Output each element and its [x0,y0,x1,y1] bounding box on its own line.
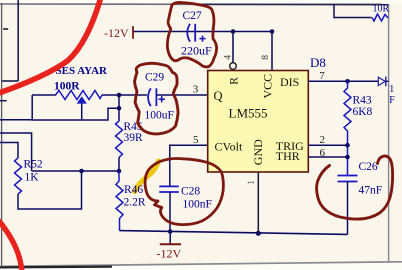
wire: top -12V rail to C27 and pins 4,8 [133,31,271,33]
svg-text:Q: Q [214,89,223,103]
svg-text:8: 8 [261,55,271,60]
junction dot pin4 top [231,29,236,34]
svg-text:DIS: DIS [280,75,299,89]
op-amp timer U? LM555 body [208,71,309,173]
svg-text:D8: D8 [310,55,326,70]
svg-text:3: 3 [193,84,199,96]
svg-text:6: 6 [320,147,326,159]
capacitor C27 straight plate [194,24,196,42]
wire: C28 bottom stub [169,192,171,232]
diode D8 cathode bar [385,77,387,87]
wire: R52 top lead from left edge [0,143,18,159]
svg-text:100uF: 100uF [145,109,174,121]
wire: pin1 GND stub [257,172,259,233]
svg-text:7: 7 [319,70,325,82]
svg-text:-12V: -12V [157,247,182,261]
junction dot bottom pin1 [256,231,261,236]
wire: C26 bottom drop [347,182,349,235]
junction dot R43 top [345,79,350,84]
wire: pot left lead [32,94,56,96]
svg-text:R46: R46 [124,184,143,196]
svg-text:THR: THR [276,149,300,163]
power port bar -12V bottom [160,243,181,245]
wire: TRIG pin2 [308,144,347,146]
svg-text:5: 5 [193,134,199,146]
svg-text:VCC: VCC [261,74,275,99]
C27 plus sign [199,36,205,42]
wire: pot left lead drop [31,95,33,120]
C29 plus sign [159,96,165,102]
potentiometer zigzag [56,91,103,100]
svg-text:C26: C26 [359,161,378,173]
sheet frame bottom border dark left segment [0,265,112,268]
svg-text:GND: GND [251,139,265,165]
svg-text:47nF: 47nF [359,185,383,197]
resistor R45 zigzag [116,121,123,158]
pin tick on left edge upper [3,28,8,30]
power port bar -12V top [132,26,134,39]
capacitor C28 top plate [159,185,179,187]
svg-text:F: F [389,95,395,106]
wire: THR pin6 [308,156,347,158]
resistor 10R partial zigzag [372,14,388,21]
page margin white strip below bottom frame [0,263,402,270]
potentiometer wiper arrow [77,96,87,103]
page margin white strip above top frame [0,0,402,3]
capacitor C26 top plate [338,175,358,177]
annotation circle around C28 [145,159,223,225]
svg-text:LM555: LM555 [229,106,268,121]
wire: pin 8 stub [271,32,273,71]
pin tick on left edge lower [0,100,7,102]
svg-text:1K: 1K [25,171,40,183]
wire: -12V bottom stub [169,232,171,245]
svg-text:C28: C28 [181,186,200,198]
wire: C29 left wire [119,94,147,96]
wire: mid bus y171 [32,170,119,172]
svg-text:100R: 100R [54,80,80,92]
svg-text:6K8: 6K8 [353,106,373,118]
svg-text:C27: C27 [183,10,202,22]
capacitor C27 curved plate [187,24,190,42]
svg-text:220uF: 220uF [181,44,212,58]
annotation circle around C27 [167,2,216,66]
junction dot bottom C28 [168,229,173,234]
wire: pot right lead [102,94,119,96]
svg-text:CVolt: CVolt [215,140,243,154]
svg-text:R: R [229,77,241,85]
yellow highlighter mark near R46 [135,161,159,192]
svg-text:100nF: 100nF [183,198,212,210]
wire: bottom pot bus from left edge [0,108,119,120]
sheet frame left border [1,3,3,268]
junction dot pin2 [345,143,350,148]
wire: bottom bus [120,231,348,235]
capacitor C26 bottom plate [338,181,358,183]
wire: DIS pin7 to D8 [308,80,378,82]
annotation open circle around C26 [317,156,393,219]
capacitor C28 bottom plate [159,191,179,193]
resistor R52 zigzag [15,158,22,194]
svg-text:1: 1 [247,180,257,185]
sheet frame bottom border grey [0,262,402,267]
resistor R46 zigzag [116,171,123,231]
junction dot mid bus right [117,169,122,174]
wire: wiper stem [81,103,83,120]
wire: C29 to pin 3 [156,94,207,96]
svg-text:1: 1 [389,84,394,95]
wire: R45 bottom lead [118,158,120,172]
junction dot pot node [117,93,122,98]
pin 4 inversion circle [230,63,237,70]
svg-text:R43: R43 [353,94,372,106]
svg-text:4: 4 [223,55,233,60]
junction dot mid bus left [79,169,84,174]
cropped component box at left edge [2,0,18,81]
wire: 10R corner from top frame [334,5,372,18]
capacitor C29 curved plate [148,88,151,106]
svg-text:2.2R: 2.2R [124,196,146,208]
wire: diode to right edge [386,80,389,82]
diode D8 triangle [378,77,385,85]
capacitor C29 straight plate [155,88,157,106]
red arc bottom-left [0,221,22,270]
svg-text:10R: 10R [373,4,390,15]
red arc top-left [0,0,101,93]
top wire navy overlay [200,3,389,5]
wire: left entry to mid bus [0,133,32,171]
wire: pin 4 stub [232,32,234,63]
svg-text:-12V: -12V [104,26,129,40]
svg-text:2: 2 [320,134,326,146]
sheet frame right border [388,4,390,262]
svg-text:R52: R52 [24,159,43,171]
annotation circle around C29 [135,63,179,134]
svg-text:39R: 39R [124,132,144,144]
junction dot pin8 top [270,29,275,34]
wire: node to R45 [118,95,120,121]
svg-text:C29: C29 [145,71,164,83]
sheet frame top border [0,3,389,6]
wire: pin5 CVolt to C28 [170,145,208,186]
resistor R43 zigzag [344,81,351,175]
wire: R52 bottom loop [18,171,82,209]
junction dot R45 top node [117,106,122,111]
junction dot pin6 [345,155,350,160]
